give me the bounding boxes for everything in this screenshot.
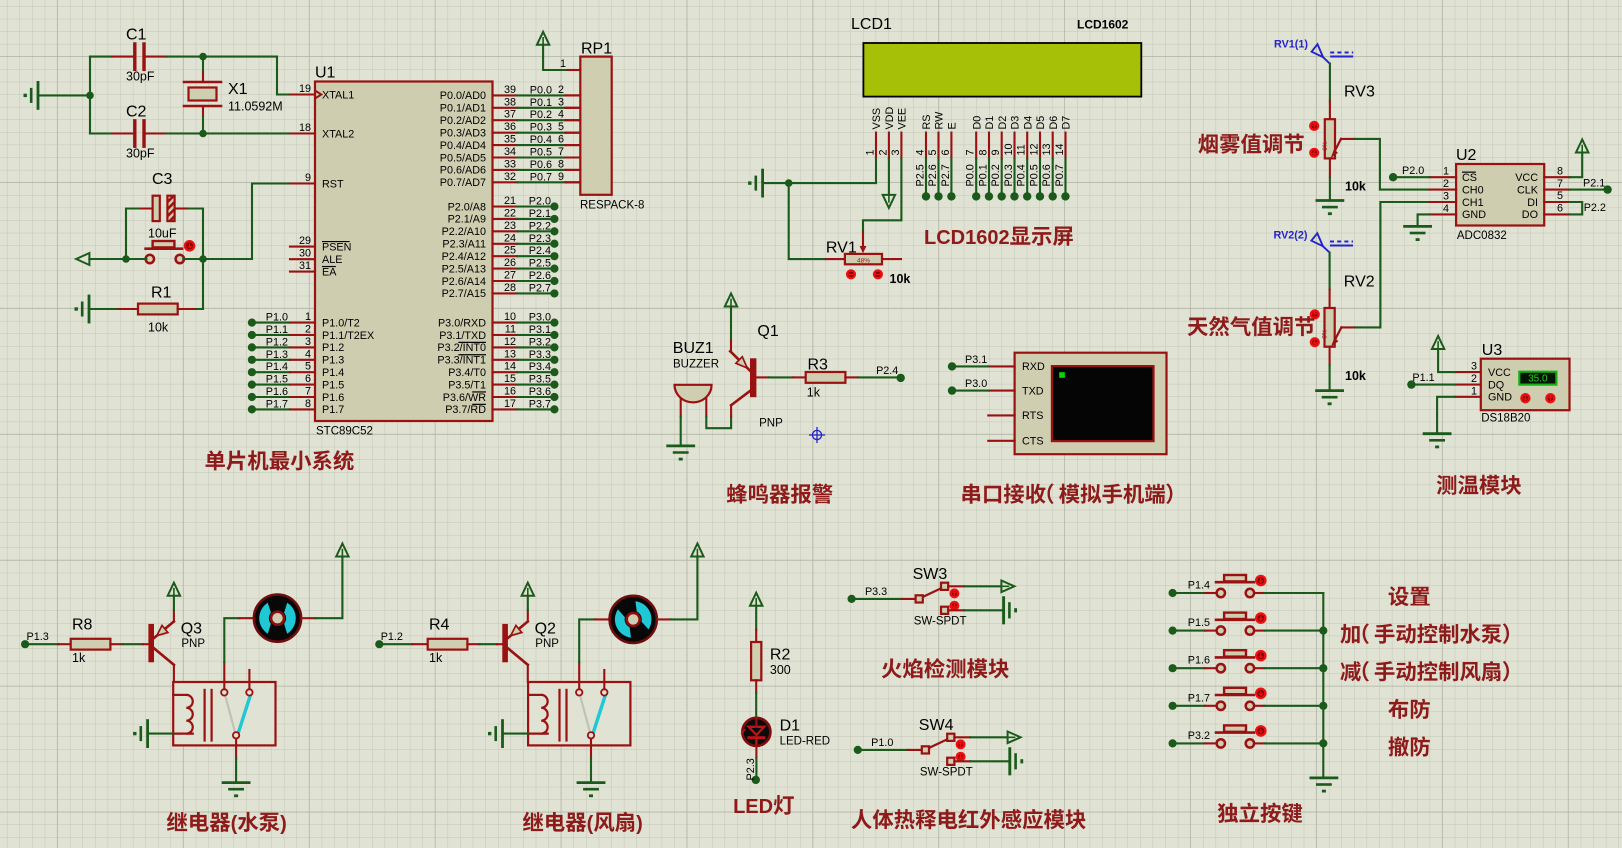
wire RV2 to ground — [1329, 365, 1331, 391]
svg-text:D4: D4 — [1022, 116, 1034, 130]
caption 撤防 — [1388, 736, 1429, 756]
power down arrow (LCD VDD) — [883, 159, 895, 208]
red actuator (P1.5 key) — [1256, 614, 1265, 623]
svg-text:RV1: RV1 — [826, 239, 857, 256]
svg-text:XTAL1: XTAL1 — [322, 89, 354, 101]
pin 1 (P1.0) of U1 with net label — [248, 311, 360, 329]
pin 1 (VSS) of LCD1 — [864, 108, 883, 159]
serial terminal body — [1015, 353, 1167, 455]
wire SW3 NO to output arrow — [948, 585, 1001, 587]
op-amp U1 body (STC89C52 MCU) — [315, 82, 493, 422]
ground (U3) — [1424, 434, 1450, 449]
wire R8 to Q3 base — [123, 643, 149, 645]
svg-text:P0.4: P0.4 — [1016, 164, 1028, 186]
wire P2.6 to LCD — [927, 159, 943, 201]
pin 3 (VEE) of LCD1 — [890, 108, 909, 159]
pin RTS of terminal — [988, 410, 1043, 422]
relay contacts and lever — [576, 670, 608, 739]
pin 14 (P3.4/T0) of U1 with net label — [448, 361, 558, 379]
svg-text:RXD: RXD — [1022, 361, 1045, 373]
label SW4 — [919, 717, 954, 734]
LED D1 (LED-RED) — [742, 718, 771, 759]
svg-text:8: 8 — [558, 158, 564, 170]
actuator buttons (SW3) — [951, 590, 959, 610]
wire P2.5 to LCD — [914, 159, 930, 201]
label X1 — [228, 81, 248, 98]
wire U3 VCC to power — [1438, 349, 1455, 372]
svg-text:P0.5: P0.5 — [1028, 164, 1040, 186]
svg-text:1: 1 — [560, 58, 566, 70]
op-amp U2 body (ADC0832) — [1456, 164, 1544, 226]
pin 9 (D2) of LCD1 — [990, 116, 1009, 159]
transistor Q3 (PNP) — [148, 622, 174, 665]
ground (buzzer) — [668, 446, 694, 461]
svg-text:10uF: 10uF — [148, 227, 177, 241]
pin TXD of terminal — [988, 385, 1043, 397]
svg-text:10k: 10k — [890, 272, 911, 286]
svg-text:D2: D2 — [997, 116, 1009, 130]
svg-text:8: 8 — [305, 398, 311, 410]
caption independent keys — [1218, 803, 1303, 824]
svg-text:P2.4: P2.4 — [529, 245, 551, 257]
svg-text:5: 5 — [558, 121, 564, 133]
capacitor C2 — [112, 121, 167, 146]
svg-text:STC89C52: STC89C52 — [316, 426, 373, 438]
svg-text:E: E — [947, 122, 959, 129]
value 10uF — [148, 227, 177, 241]
pin 12 (D5) of LCD1 — [1028, 116, 1047, 159]
adjust buttons (RV3) — [1310, 122, 1318, 157]
svg-text:SW4: SW4 — [919, 717, 954, 734]
wire P1.0 to SW4 — [854, 746, 922, 754]
svg-text:21: 21 — [504, 195, 516, 207]
svg-text:14: 14 — [504, 361, 516, 373]
ground (keys) — [1311, 778, 1337, 793]
reset push button — [146, 241, 184, 263]
pin 22 (P2.1/A9) of U1 with net label — [448, 207, 559, 225]
svg-text:P3.4/T0: P3.4/T0 — [448, 367, 486, 379]
ground right (SW3) — [1004, 598, 1017, 623]
wire P3.1 to RXD — [948, 354, 989, 371]
svg-text:38: 38 — [504, 96, 516, 108]
switch SW4 (SW-SPDT) — [922, 734, 955, 765]
svg-text:300: 300 — [770, 663, 791, 677]
svg-text:P1.0: P1.0 — [871, 737, 893, 749]
svg-text:13: 13 — [504, 348, 516, 360]
power arrow (U3 VCC) — [1432, 336, 1444, 349]
serial terminal screen — [1052, 366, 1154, 441]
pin 11 (P3.1/TXD) of U1 with net label — [439, 324, 558, 342]
pin 4 (RS) of LCD1 — [914, 115, 933, 159]
svg-text:11: 11 — [1016, 144, 1028, 155]
adjust buttons (RV2) — [1311, 311, 1319, 347]
svg-text:P0.0/AD0: P0.0/AD0 — [440, 90, 486, 102]
svg-text:P1.6: P1.6 — [322, 392, 344, 404]
wire C1 to XTAL1 — [167, 53, 290, 95]
adjust buttons (RV1) — [847, 270, 882, 278]
svg-text:P2.3: P2.3 — [745, 758, 757, 780]
svg-text:P2.1: P2.1 — [1583, 177, 1605, 189]
svg-text:27: 27 — [504, 270, 516, 282]
svg-text:P3.3/INT1: P3.3/INT1 — [437, 355, 486, 367]
pin 2 (VDD) of LCD1 — [877, 107, 896, 159]
svg-text:30: 30 — [299, 248, 311, 260]
label Q3 — [181, 621, 202, 638]
svg-text:P3.5: P3.5 — [529, 374, 551, 386]
svg-text:P1.7: P1.7 — [266, 398, 288, 410]
pin 6 (DO) of U2 — [1522, 203, 1570, 222]
pin 5 (DI) of U2 — [1527, 190, 1569, 209]
ground (U2 GND) — [1405, 226, 1431, 241]
svg-text:10k: 10k — [1345, 369, 1366, 383]
pin 6 (E) of LCD1 — [940, 122, 959, 158]
push button P1.4 — [1169, 575, 1265, 597]
svg-text:P3.2: P3.2 — [529, 336, 551, 348]
svg-text:U2: U2 — [1456, 147, 1477, 164]
svg-text:D5: D5 — [1035, 116, 1047, 130]
pin 8 of RP1 — [558, 158, 580, 170]
power arrow right (SW4) — [1008, 732, 1021, 744]
potentiometer RV2 — [1322, 290, 1356, 366]
value 10k (RV2) — [1345, 369, 1366, 383]
wire P0.3 to LCD — [1003, 159, 1019, 201]
pin 8 (D1) of LCD1 — [977, 116, 996, 159]
caption LCD1602 display — [924, 227, 1073, 249]
svg-text:D6: D6 — [1048, 116, 1060, 130]
svg-text:P1.1/T2EX: P1.1/T2EX — [322, 330, 374, 342]
svg-text:P3.3: P3.3 — [865, 586, 887, 598]
wire SW3 NC to ground — [948, 609, 1003, 611]
wire P1.4 key to common — [1264, 592, 1323, 594]
node crystal-left vertical wire — [86, 57, 94, 134]
pin 4 of RP1 — [558, 109, 580, 121]
relay contacts and lever — [221, 670, 252, 739]
power arrow (R2) — [750, 593, 762, 606]
svg-text:23: 23 — [504, 220, 516, 232]
svg-text:8: 8 — [977, 149, 989, 155]
wire U3 GND to ground — [1437, 397, 1455, 434]
label RV2 — [1344, 274, 1375, 291]
cursor square (terminal) — [1059, 372, 1065, 378]
wire R4 to Q2 base — [480, 643, 503, 645]
svg-text:RV2: RV2 — [1344, 274, 1375, 291]
svg-text:P1.4: P1.4 — [266, 361, 288, 373]
svg-text:28: 28 — [504, 282, 516, 294]
svg-text:P2.5: P2.5 — [914, 164, 926, 186]
wire VSS to ground — [763, 159, 876, 187]
wire P1.3 net — [21, 640, 58, 648]
svg-text:6: 6 — [305, 373, 311, 385]
svg-text:R3: R3 — [808, 357, 829, 374]
power arrow right (SW3) — [1001, 581, 1014, 593]
ground (RV3) — [1317, 201, 1343, 216]
svg-text:8: 8 — [1557, 165, 1563, 177]
caption MCU minimal system — [206, 450, 354, 470]
svg-text:DI: DI — [1527, 197, 1538, 209]
svg-text:24: 24 — [504, 232, 516, 244]
svg-text:2: 2 — [558, 84, 564, 96]
pin 10 (P3.0/RXD) of U1 with net label — [438, 311, 559, 329]
svg-text:P0.3/AD3: P0.3/AD3 — [440, 127, 486, 139]
svg-text:P2.3: P2.3 — [529, 233, 551, 245]
wire P0.2 to LCD — [990, 159, 1006, 201]
value 11.0592M — [228, 100, 283, 114]
svg-text:D3: D3 — [1010, 116, 1022, 130]
ground (RV2) — [1317, 391, 1343, 406]
svg-text:LED-RED: LED-RED — [780, 736, 830, 748]
svg-text:SW-SPDT: SW-SPDT — [920, 766, 973, 778]
pin 30 (ALE) of U1 — [290, 248, 342, 266]
net label P1.6 — [1188, 655, 1210, 667]
label R3 — [808, 357, 829, 374]
pin 7 of RP1 — [558, 146, 580, 158]
svg-text:P3.7: P3.7 — [529, 398, 551, 410]
caption 设置 — [1389, 586, 1430, 606]
red actuator (P1.7 key) — [1256, 689, 1265, 698]
svg-text:5: 5 — [927, 149, 939, 155]
pin 35 (P0.4/AD4) of U1 to RP1 — [440, 134, 581, 152]
svg-text:0%: 0% — [1322, 141, 1329, 151]
svg-text:LCD1602: LCD1602 — [1077, 18, 1129, 32]
pin 5 (P1.4) of U1 with net label — [248, 361, 344, 379]
buzzer BUZ1 — [675, 385, 712, 417]
svg-text:VCC: VCC — [1488, 367, 1511, 379]
svg-text:P1.5: P1.5 — [322, 379, 344, 391]
net label P1.4 — [1188, 580, 1210, 592]
potentiometer RV3 — [1322, 101, 1355, 177]
svg-text:1: 1 — [305, 311, 311, 323]
wire C2 to XTAL2 — [167, 130, 290, 138]
resistor R4 — [413, 639, 480, 650]
svg-text:P3.4: P3.4 — [529, 361, 551, 373]
svg-text:4: 4 — [914, 149, 926, 155]
value 300 (R2) — [770, 663, 791, 677]
wire C3-left loop — [126, 209, 139, 260]
svg-text:ADC0832: ADC0832 — [1457, 230, 1507, 242]
label R2 — [770, 647, 791, 664]
relay coil — [173, 690, 211, 741]
label U1 — [315, 65, 336, 82]
pin 9 of RP1 — [558, 171, 580, 183]
svg-text:9: 9 — [305, 172, 311, 184]
svg-text:37: 37 — [504, 109, 516, 121]
power arrow (U2 VCC) — [1576, 140, 1588, 153]
svg-text:P2.5: P2.5 — [529, 258, 551, 270]
svg-text:CLK: CLK — [1517, 184, 1539, 196]
svg-text:P1.2: P1.2 — [322, 342, 344, 354]
wire relay common to ground — [590, 739, 592, 783]
wire power to R2 — [755, 606, 757, 630]
origin marker (blue crosshair) — [810, 428, 825, 443]
svg-text:10: 10 — [504, 311, 516, 323]
svg-text:PSEN: PSEN — [322, 241, 351, 253]
ground (crystal net) — [24, 82, 39, 108]
svg-text:P1.4: P1.4 — [1188, 580, 1210, 592]
svg-text:PNP: PNP — [181, 638, 205, 650]
wire collector to relay — [527, 665, 529, 682]
svg-text:22: 22 — [504, 207, 516, 219]
relay coil — [528, 690, 566, 741]
svg-text:0%: 0% — [1322, 329, 1329, 339]
svg-text:D1: D1 — [984, 116, 996, 130]
svg-text:1k: 1k — [72, 651, 86, 665]
pin 2 of RP1 — [558, 84, 580, 96]
svg-text:15: 15 — [504, 373, 516, 385]
label RESPACK-8 — [580, 200, 644, 212]
wire power to Q1 — [730, 307, 732, 341]
wire RV3 wiper to U2 CH0 — [1355, 139, 1429, 190]
label PNP (Q1) — [759, 418, 783, 430]
relay R8 body — [173, 682, 275, 745]
svg-text:P1.0: P1.0 — [266, 312, 288, 324]
wire P0.5 to LCD — [1028, 159, 1044, 201]
svg-text:12: 12 — [1028, 143, 1040, 155]
svg-text:P2.0: P2.0 — [529, 196, 551, 208]
svg-text:TXD: TXD — [1022, 385, 1044, 397]
pin 8 (P1.7) of U1 with net label — [248, 398, 344, 416]
svg-text:P2.2/A10: P2.2/A10 — [442, 226, 486, 238]
wire motor to power — [302, 557, 343, 619]
wire U2 CLK to P2.1 — [1570, 177, 1612, 194]
svg-text:10: 10 — [1003, 143, 1015, 155]
svg-text:RP1: RP1 — [581, 41, 612, 58]
wire U2 VCC to power — [1570, 153, 1583, 178]
svg-text:P0.0: P0.0 — [965, 164, 977, 186]
wire P0.4 to LCD — [1016, 159, 1032, 201]
svg-text:10k: 10k — [1345, 180, 1366, 194]
ground (LCD VSS) — [748, 170, 763, 196]
svg-text:P2.6: P2.6 — [927, 164, 939, 186]
svg-text:ALE: ALE — [322, 254, 342, 266]
wire SW4 NO to output arrow — [954, 736, 1007, 738]
svg-text:36: 36 — [504, 121, 516, 133]
svg-text:D0: D0 — [971, 116, 983, 130]
temperature display 35.0 (U3) — [1519, 372, 1556, 385]
wire P0.6 to LCD — [1041, 159, 1057, 201]
svg-text:P2.5/A13: P2.5/A13 — [442, 263, 486, 275]
power arrow (RP1 pin1) — [537, 32, 549, 45]
svg-text:P0.4/AD4: P0.4/AD4 — [440, 140, 486, 152]
caption smoke threshold adjust — [1198, 134, 1303, 154]
wire node to RV1 — [789, 183, 826, 259]
svg-text:P1.1: P1.1 — [1412, 372, 1434, 384]
pin 4 (GND) of U2 — [1430, 203, 1487, 221]
probe label RV2(2) — [1274, 230, 1308, 242]
caption relay (water pump) — [167, 812, 287, 835]
capacitor C3 (10uF electrolytic) — [139, 196, 188, 221]
caption flame detection module — [882, 658, 1009, 678]
net label P3.2 — [1188, 730, 1210, 742]
svg-text:1k: 1k — [429, 651, 443, 665]
svg-text:P1.7: P1.7 — [1188, 692, 1210, 704]
pin 17 (P3.7/RD) of U1 with net label — [445, 398, 558, 416]
label ADC0832 — [1457, 230, 1507, 242]
net label P2.3 — [745, 758, 757, 780]
value 10k (RV3) — [1345, 180, 1366, 194]
caption serial receive (phone side) — [962, 483, 1172, 504]
pin 27 (P2.6/A14) of U1 with net label — [442, 270, 559, 288]
svg-text:P1.7: P1.7 — [322, 404, 344, 416]
wire P0.7 to LCD — [1054, 159, 1070, 201]
net label P1.3 — [27, 631, 49, 643]
label C3 — [152, 171, 173, 188]
svg-text:D7: D7 — [1061, 116, 1073, 130]
svg-text:3: 3 — [305, 336, 311, 348]
net label P1.7 — [1188, 692, 1210, 704]
pin 34 (P0.5/AD5) of U1 to RP1 — [440, 146, 581, 164]
svg-text:RV1(1): RV1(1) — [1274, 39, 1308, 51]
svg-text:P0.4: P0.4 — [530, 134, 552, 146]
red actuator (reset button) — [185, 241, 194, 250]
svg-text:RV2(2): RV2(2) — [1274, 230, 1308, 242]
svg-text:C3: C3 — [152, 171, 173, 188]
svg-text:P0.6: P0.6 — [530, 159, 552, 171]
svg-text:1k: 1k — [807, 386, 821, 400]
pin 19 (XTAL1) of U1 — [290, 83, 354, 101]
pin 6 of RP1 — [558, 134, 580, 146]
pin 1 (GND) of U3 — [1455, 385, 1512, 403]
svg-text:CTS: CTS — [1022, 436, 1044, 448]
svg-text:CS: CS — [1462, 172, 1477, 184]
svg-text:P1.0/T2: P1.0/T2 — [322, 317, 360, 329]
svg-text:19: 19 — [299, 83, 311, 95]
svg-text:Q3: Q3 — [181, 621, 202, 638]
svg-text:(: ( — [587, 813, 594, 835]
wire R2 to D1 — [755, 693, 757, 718]
caption temperature module — [1437, 475, 1521, 495]
svg-text:P0.0: P0.0 — [530, 84, 552, 96]
label BUZ1 — [673, 340, 714, 357]
wire ground to R1 — [89, 308, 119, 310]
caption human infrared sensing module — [851, 809, 1085, 830]
svg-text:C2: C2 — [126, 104, 147, 121]
svg-text:RW: RW — [934, 111, 946, 130]
wire motor to power — [657, 557, 697, 620]
wire C2 row — [90, 132, 112, 134]
label PNP (Q3) — [181, 638, 205, 650]
svg-text:P3.2: P3.2 — [1188, 730, 1210, 742]
svg-text:18: 18 — [299, 122, 311, 134]
svg-text:P0.2: P0.2 — [530, 109, 552, 121]
svg-text:4: 4 — [1443, 203, 1449, 215]
wire U2 GND to ground — [1418, 214, 1430, 226]
red actuator (P3.2 key) — [1256, 726, 1265, 735]
resistor R3 — [793, 372, 858, 383]
svg-text:P2.3/A11: P2.3/A11 — [442, 239, 486, 251]
svg-text:3: 3 — [890, 149, 902, 155]
label PNP (Q2) — [535, 638, 559, 650]
pin 32 (P0.7/AD7) of U1 to RP1 — [440, 171, 581, 189]
pin RXD of terminal — [988, 361, 1045, 373]
switch SW3 (SW-SPDT) — [916, 583, 949, 614]
svg-text:P2.2: P2.2 — [1584, 202, 1606, 214]
voltage probe (RV1(1)) — [1312, 44, 1354, 63]
wire P0.1 to LCD — [977, 159, 993, 201]
svg-text:PNP: PNP — [759, 418, 783, 430]
wire C3-right loop — [188, 209, 203, 260]
power arrow (Q3 emitter) — [168, 583, 180, 596]
svg-text:RV3: RV3 — [1344, 84, 1375, 101]
pin 7 (D0) of LCD1 — [965, 116, 984, 159]
pin 13 (P3.3/INT1) of U1 with net label — [437, 348, 558, 366]
svg-text:P0.7/AD7: P0.7/AD7 — [440, 177, 486, 189]
svg-text:25: 25 — [504, 245, 516, 257]
wire coil to ground — [149, 733, 173, 735]
svg-text:VSS: VSS — [871, 108, 883, 130]
svg-text:P0.6: P0.6 — [1041, 164, 1053, 186]
svg-text:X1: X1 — [228, 81, 248, 98]
svg-text:P2.0/A8: P2.0/A8 — [448, 201, 486, 213]
